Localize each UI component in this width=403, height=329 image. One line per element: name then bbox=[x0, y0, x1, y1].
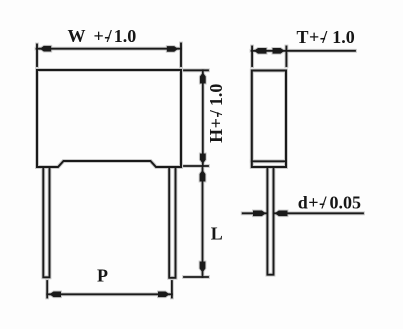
P dimension extension line left bbox=[46, 281, 48, 298]
capacitor body side view outline bbox=[252, 71, 286, 168]
H dimension extension line top bbox=[184, 69, 208, 71]
d arrowhead left (pointing right at lead) bbox=[253, 211, 266, 217]
P dimension extension line right bbox=[171, 281, 173, 298]
H dimension line bbox=[202, 70, 204, 166]
H arrowhead top bbox=[200, 73, 206, 84]
d dimension line left segment bbox=[243, 212, 267, 214]
svg-text:L: L bbox=[211, 224, 223, 244]
d arrowhead right (pointing left at lead) bbox=[275, 211, 288, 217]
P arrowhead right bbox=[158, 292, 170, 298]
capacitor body front view outline bbox=[37, 70, 181, 167]
L arrowhead top bbox=[200, 170, 206, 182]
L dimension extension line bottom bbox=[184, 276, 208, 278]
side view crimp line bbox=[252, 160, 286, 162]
svg-text:H+/-1.0: H+/-1.0 bbox=[206, 84, 226, 143]
svg-text:P: P bbox=[97, 265, 108, 285]
H dimension extension line bottom bbox=[184, 165, 208, 167]
lead (side view) bbox=[267, 168, 273, 275]
T dimension extension line right bbox=[285, 47, 287, 67]
W dimension line bbox=[37, 48, 182, 50]
T arrowhead left (pointing left) bbox=[254, 48, 267, 54]
P dimension line bbox=[47, 293, 172, 295]
L dimension line bbox=[202, 166, 204, 277]
svg-text:W+/-1.0: W+/-1.0 bbox=[68, 26, 137, 46]
T dimension line bbox=[252, 50, 356, 52]
W arrowhead left bbox=[40, 46, 51, 52]
svg-text:d+/-0.05: d+/-0.05 bbox=[298, 193, 361, 213]
svg-text:T+/-1.0: T+/-1.0 bbox=[297, 27, 355, 47]
T dimension extension line left bbox=[251, 47, 253, 67]
lead left (front view) bbox=[43, 168, 49, 278]
W dimension extension line right bbox=[180, 44, 182, 67]
W dimension extension line left bbox=[36, 45, 38, 67]
W arrowhead right bbox=[167, 46, 178, 52]
lead right (front view) bbox=[169, 168, 175, 278]
d dimension line right segment bbox=[274, 212, 363, 214]
T arrowhead right (pointing right) bbox=[273, 48, 285, 54]
H arrowhead bottom bbox=[200, 154, 206, 164]
L arrowhead bottom bbox=[200, 262, 206, 273]
P arrowhead left bbox=[50, 292, 62, 298]
